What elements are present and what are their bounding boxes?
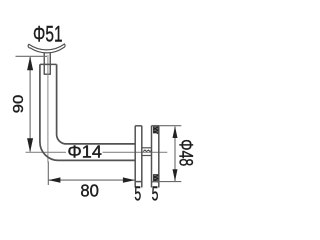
screw bottom (hatched): [153, 175, 158, 183]
dim phi48: bottom extension line: [152, 181, 181, 183]
thread marks on stub: [143, 150, 152, 152]
dim 80: left extension line: [47, 162, 49, 186]
svg-text:90: 90: [11, 95, 27, 114]
dim 80: arrow right: [123, 177, 135, 182]
dim 90: top extension line: [16, 55, 48, 57]
arm horizontal axis line (right part): [103, 151, 168, 153]
svg-text:Φ48: Φ48: [174, 139, 195, 166]
dim phi48: top extension line: [152, 125, 181, 127]
screw top (hatched): [153, 126, 158, 134]
post top cap: [40, 63, 57, 65]
threaded stub between plates: [142, 148, 152, 156]
flange plate 1 (inner disc): [135, 126, 142, 188]
dim phi48: arrow down: [173, 169, 178, 181]
saddle (handrail cradle, Phi51): [28, 44, 65, 53]
dim phi48: arrow up: [173, 126, 178, 138]
svg-text:Φ14: Φ14: [67, 142, 102, 162]
dim 80: arrow left: [48, 177, 60, 182]
svg-text:Φ51: Φ51: [33, 21, 63, 46]
dim phi48: dimension line: [174, 127, 176, 182]
svg-text:80: 80: [80, 180, 99, 200]
post right edge + inner elbow into arm top: [57, 64, 135, 143]
dim 90: arrow down: [27, 138, 33, 152]
dim 90: arrow up: [27, 56, 33, 70]
stud under saddle: [44, 53, 51, 75]
svg-text:5: 5: [134, 183, 141, 205]
dim 90: dimension line: [29, 57, 31, 152]
dim 80: dimension line: [48, 179, 135, 181]
svg-text:5: 5: [152, 183, 159, 205]
arm horizontal axis line (left part): [26, 151, 67, 153]
post vertical axis line: [47, 55, 49, 163]
post left edge + outer elbow into arm bottom: [40, 64, 135, 160]
flange plate 2 (wall disc): [152, 126, 159, 188]
